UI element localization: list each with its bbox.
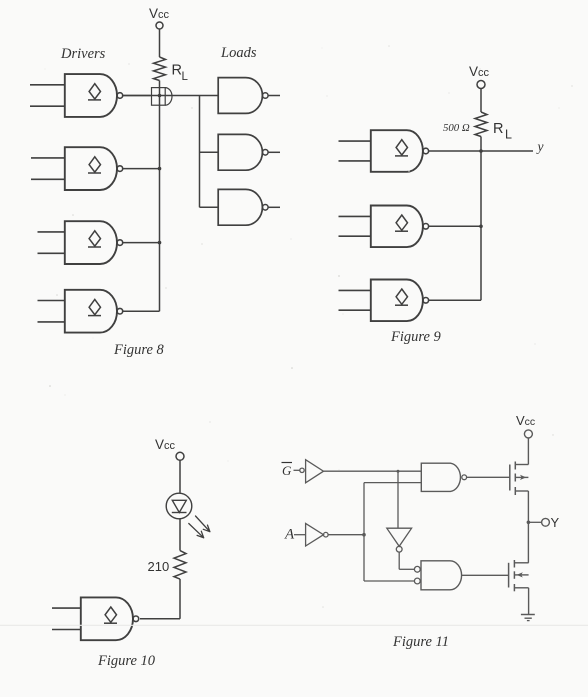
input wires of G2 bbox=[31, 157, 65, 159]
input wires (fig10) bbox=[52, 607, 81, 609]
NAND driver gate G1 (open-collector, fig8) bbox=[65, 74, 117, 117]
terminal circle Y bbox=[542, 518, 550, 526]
ground symbol bbox=[521, 614, 535, 616]
NAND driver gate G4 (open-collector, fig8) bbox=[65, 290, 117, 333]
LED light arrow 1 bbox=[196, 516, 210, 532]
output bubble of G3 bbox=[117, 240, 123, 246]
wire to NAND2 upper input bbox=[399, 568, 414, 570]
open-collector diamond of N2 bbox=[396, 215, 407, 230]
wire down to inverter input bbox=[397, 471, 399, 528]
NAND load gate L3 (fig8) bbox=[218, 189, 262, 225]
wired-AND vertical bus (fig8) bbox=[159, 96, 161, 311]
output bubble of L1 bbox=[263, 93, 269, 99]
NAND load gate L1 (fig8) bbox=[218, 78, 262, 114]
svg-text:Vcc: Vcc bbox=[516, 413, 535, 428]
wire Vcc to M1 drain bbox=[527, 438, 529, 465]
wire NAND2 output to M2 gate bbox=[462, 574, 509, 576]
wire A node up to NAND1 input B bbox=[363, 483, 365, 535]
svg-text:G: G bbox=[282, 463, 292, 478]
MOSFET M1 body arrow (points right) bbox=[515, 476, 528, 478]
MOSFET M1 gate bar bbox=[509, 465, 511, 491]
LED light arrow 2 bbox=[189, 524, 204, 538]
output bubble of B2 bbox=[324, 532, 329, 537]
NAND load gate L2 (fig8) bbox=[218, 134, 262, 170]
NAND gate N1 (open-collector, fig9) bbox=[371, 130, 423, 172]
svg-text:y: y bbox=[536, 139, 544, 154]
svg-text:Figure 11: Figure 11 bbox=[392, 634, 449, 650]
MOSFET M2 drain tap bbox=[514, 562, 528, 564]
resistor RL 500 ohm (fig9) bbox=[475, 112, 487, 137]
svg-text:A: A bbox=[284, 527, 295, 543]
wire B1 output to NAND1 input A bbox=[324, 470, 422, 472]
wire LED to resistor 210 bbox=[179, 519, 181, 551]
wire resistor to output node y bbox=[480, 137, 482, 152]
open-collector diamond symbol of G3 bbox=[89, 231, 100, 246]
svg-text:Vcc: Vcc bbox=[155, 437, 176, 452]
input wires of G4 bbox=[38, 300, 65, 302]
wire Vcc to LED bbox=[179, 460, 181, 493]
output bubble of N3 bbox=[423, 298, 429, 304]
output bubble (fig10) bbox=[133, 616, 139, 622]
wire resistor down bbox=[179, 579, 181, 619]
loads branch vertical wire bbox=[199, 96, 201, 208]
svg-text:Figure 10: Figure 10 bbox=[97, 653, 156, 669]
junction dot N2 output / bus bbox=[479, 225, 483, 229]
junction dot inside wired-AND bbox=[158, 94, 162, 98]
output wire of N3 to bus bbox=[429, 299, 481, 301]
wire NAND1 output to M1 gate bbox=[467, 476, 510, 478]
input wires of G3 bbox=[38, 231, 65, 233]
output bubble of L3 bbox=[263, 205, 269, 211]
MOSFET M2 gate bar bbox=[508, 563, 510, 588]
svg-text:Vcc: Vcc bbox=[469, 64, 490, 79]
output bubble of N1 bbox=[423, 148, 429, 154]
output bubble of G1 bbox=[117, 93, 123, 99]
NAND gate N2 (open-collector, fig9) bbox=[371, 206, 423, 248]
svg-text:L: L bbox=[505, 128, 512, 142]
MOSFET M2 channel segments bbox=[513, 560, 515, 568]
svg-text:Vcc: Vcc bbox=[149, 6, 170, 21]
wire A to buffer B2 bbox=[294, 534, 306, 536]
scan artifact faint horizontal streak bbox=[0, 624, 588, 626]
output wire of G2 to wired-AND bus bbox=[123, 168, 160, 170]
wired-AND connection symbol (fig8) bbox=[152, 88, 166, 106]
output wire of G3 to wired-AND bus bbox=[123, 242, 160, 244]
output bubble of G4 bbox=[117, 308, 123, 314]
svg-text:L: L bbox=[182, 71, 189, 83]
input wires of G1 bbox=[30, 84, 65, 86]
open-collector diamond of N3 bbox=[396, 289, 407, 304]
MOSFET M1 channel segments bbox=[514, 462, 516, 470]
svg-text:Figure 9: Figure 9 bbox=[390, 329, 442, 345]
input wires of N2 bbox=[339, 215, 371, 217]
output bubble of inverter U3 bbox=[396, 546, 402, 552]
NAND gate N3 (open-collector, fig9) bbox=[371, 280, 423, 322]
svg-text:R: R bbox=[493, 121, 503, 137]
output bubble of G2 bbox=[117, 166, 123, 172]
NAND driver gate G3 (open-collector, fig8) bbox=[65, 221, 117, 264]
wire to Y terminal bbox=[528, 521, 541, 523]
input bubble 1 of NAND2 bbox=[414, 566, 420, 572]
inverter U3 (points down) bbox=[387, 528, 412, 546]
open-collector diamond symbol of G2 bbox=[89, 157, 100, 172]
wire Vcc to resistor RL (fig9) bbox=[480, 88, 482, 112]
open-collector diamond symbol of G1 bbox=[89, 84, 100, 99]
wire output node y horizontal bbox=[429, 150, 533, 152]
open-collector diamond symbol of G4 bbox=[89, 299, 100, 314]
wired-AND vertical bus (fig9) bbox=[480, 151, 482, 300]
buffer B2 triangle (A) bbox=[306, 523, 324, 546]
open-collector diamond (fig10) bbox=[105, 607, 116, 622]
wire B2 output to junction bbox=[328, 534, 364, 536]
output stub of L3 bbox=[268, 206, 280, 208]
MOSFET M2 body arrow (points left) bbox=[514, 574, 528, 576]
LED D1 (fig10) bbox=[166, 493, 192, 519]
resistor RL (fig8) bbox=[154, 57, 166, 81]
svg-text:Y: Y bbox=[551, 515, 560, 530]
wire Vcc to resistor RL bbox=[159, 29, 161, 57]
input wires of N1 bbox=[339, 140, 371, 142]
wire M2 source to ground bbox=[528, 588, 530, 615]
output wire of G4 to wired-AND bus bbox=[123, 310, 160, 312]
wire inverter output down bbox=[398, 552, 400, 569]
wire to gate output bbox=[140, 618, 180, 620]
NAND gate (open-collector, fig10) bbox=[81, 597, 133, 640]
svg-text:Figure 8: Figure 8 bbox=[113, 342, 165, 358]
output stub of L2 bbox=[268, 151, 280, 153]
MOSFET M1 drain tap bbox=[515, 464, 528, 466]
scan speckles bbox=[191, 107, 192, 108]
open-collector diamond of N1 bbox=[396, 140, 407, 155]
wire A node down bbox=[363, 535, 365, 581]
junction dot B1 output / inverter branch bbox=[397, 470, 400, 473]
output wire of N2 to bus bbox=[429, 225, 481, 227]
wire wired-AND output to loads bbox=[122, 95, 218, 97]
output wire of G1 to wired-AND bus bbox=[123, 95, 151, 97]
svg-text:Loads: Loads bbox=[220, 45, 257, 61]
wire M1 source down to output node bbox=[527, 491, 529, 563]
branch wire to load 2 bbox=[200, 151, 219, 153]
junction dot resistor/output bbox=[479, 149, 483, 153]
wire resistor to wired-AND bus bbox=[159, 81, 161, 97]
output bubble of L2 bbox=[263, 150, 269, 156]
wire to NAND1 lower input bbox=[364, 482, 421, 484]
output stub of L1 bbox=[268, 95, 280, 97]
input bubble 2 of NAND2 bbox=[414, 578, 420, 584]
NAND2 gate with inverting inputs (fig11) bbox=[421, 561, 462, 590]
resistor 210 ohm (fig10) bbox=[174, 551, 186, 579]
junction dot G3 output / bus bbox=[158, 241, 162, 245]
input bubble of buffer B1 bbox=[300, 468, 304, 472]
branch wire to load 3 bbox=[200, 206, 219, 208]
svg-text:Drivers: Drivers bbox=[60, 46, 106, 62]
NAND1 gate (fig11) bbox=[421, 463, 460, 491]
svg-text:210: 210 bbox=[148, 559, 170, 574]
junction dot output Y node bbox=[527, 521, 531, 525]
junction dot G2 output / bus bbox=[158, 167, 162, 171]
wire to NAND2 lower input bbox=[364, 580, 414, 582]
junction dot A node bbox=[362, 533, 366, 537]
buffer B1 triangle (Gbar) bbox=[306, 460, 324, 483]
svg-text:500 Ω: 500 Ω bbox=[443, 122, 470, 134]
output bubble of N2 bbox=[423, 224, 429, 230]
svg-text:R: R bbox=[172, 63, 182, 79]
output bubble of NAND1 bbox=[462, 475, 467, 480]
input wires of N3 bbox=[339, 289, 371, 291]
NAND driver gate G2 (open-collector, fig8) bbox=[65, 147, 117, 190]
wire Gbar to buffer bbox=[294, 469, 300, 471]
MOSFET M2 source tap bbox=[514, 587, 528, 589]
MOSFET M1 source tap bbox=[515, 490, 528, 492]
